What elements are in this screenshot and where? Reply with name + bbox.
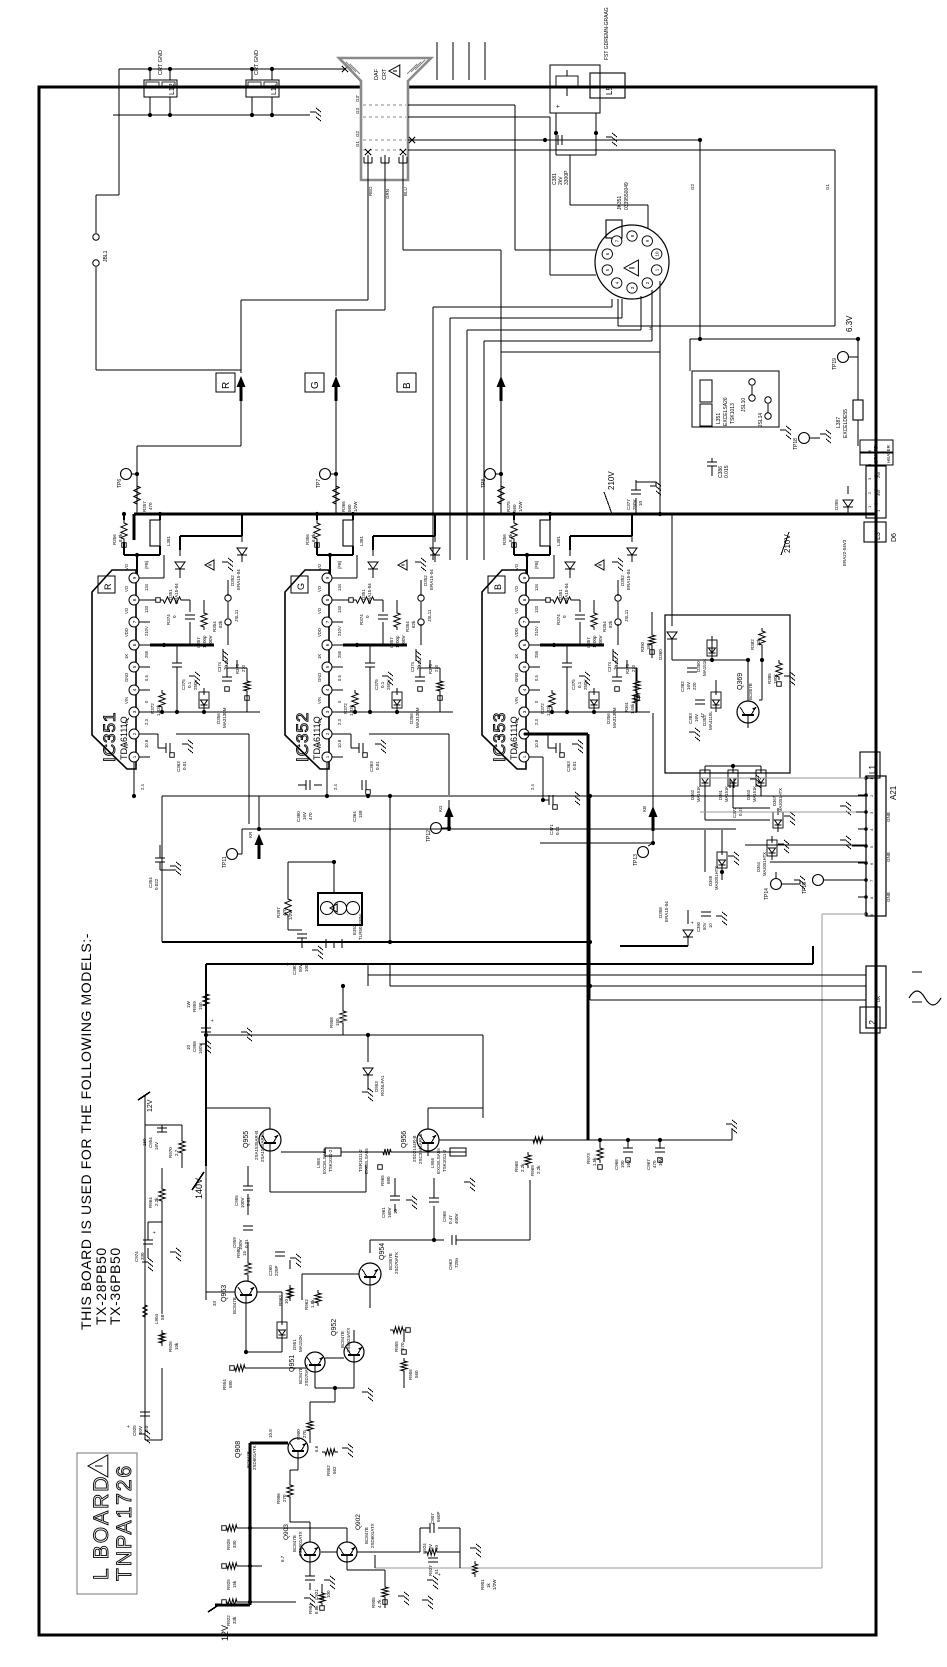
capacitor C907 [430, 1511, 441, 1533]
svg-text:134: 134 [337, 583, 342, 591]
svg-text:D352: D352 [423, 575, 428, 586]
capacitor C354 [148, 845, 165, 890]
svg-text:0.015: 0.015 [724, 465, 730, 478]
svg-text:6.8k: 6.8k [314, 1605, 319, 1614]
svg-text:133: 133 [144, 605, 149, 613]
capacitor B3 C decouple [562, 645, 588, 690]
wire mid rail C [540, 842, 653, 844]
resistor R925 [222, 1563, 240, 1590]
svg-text:1.33k: 1.33k [546, 704, 551, 716]
svg-text:Q952: Q952 [331, 1319, 338, 1336]
svg-text:ERA15-04: ERA15-04 [429, 569, 434, 590]
svg-text:C377: C377 [626, 499, 631, 510]
wire R3 jsl [204, 580, 228, 645]
box FST screen filter [550, 65, 600, 113]
svg-text:160V: 160V [198, 1043, 203, 1054]
svg-text:16V: 16V [154, 1142, 159, 1150]
inductor L387 [836, 400, 863, 438]
wire A21 pin5 feed [745, 844, 866, 846]
svg-text:133: 133 [337, 605, 342, 613]
resistor R970 [168, 1138, 185, 1158]
resistor R3 270 [235, 663, 250, 700]
svg-text:JSL14: JSL14 [758, 413, 764, 427]
svg-text:C958: C958 [192, 1041, 197, 1052]
svg-text:R928: R928 [226, 1539, 231, 1550]
svg-text:10: 10 [434, 1544, 439, 1550]
svg-text:2.2k: 2.2k [520, 1163, 525, 1172]
svg-text:MA151K: MA151K [696, 786, 701, 802]
svg-text:0.5: 0.5 [144, 675, 149, 681]
wire gray bottom [375, 1567, 822, 1569]
resistor R964 [148, 1186, 165, 1208]
connector HEATER 2 [860, 444, 893, 465]
svg-text:2SC3944ARLB: 2SC3944ARLB [418, 1133, 423, 1164]
svg-text:1K: 1K [514, 654, 519, 659]
svg-text:GNB: GNB [886, 892, 891, 902]
svg-text:4: 4 [132, 688, 137, 691]
capacitor C924 [422, 1543, 443, 1576]
wire mid riser 390 [389, 796, 391, 942]
svg-text:C967: C967 [646, 1159, 651, 1170]
transistor-diode D354 [392, 688, 420, 728]
wire socket bundle 4 [484, 290, 652, 560]
svg-text:DK: DK [876, 996, 881, 1002]
svg-text:560: 560 [414, 1370, 419, 1378]
svg-text:1W: 1W [186, 1000, 191, 1008]
svg-text:220P: 220P [274, 1265, 279, 1276]
svg-text:D350: D350 [696, 661, 701, 672]
svg-text:470: 470 [308, 812, 313, 820]
svg-text:D352: D352 [230, 575, 235, 586]
junction Q953 net [244, 1238, 436, 1354]
arrow KG [445, 806, 454, 817]
label box G [305, 373, 324, 392]
svg-text:100: 100 [326, 1590, 331, 1598]
svg-text:6.7: 6.7 [280, 1555, 285, 1562]
svg-text:16V: 16V [626, 1160, 631, 1168]
capacitor C383 [688, 700, 705, 724]
svg-text:10: 10 [638, 500, 643, 506]
svg-text:MA4110L: MA4110L [708, 711, 713, 730]
svg-text:2.3: 2.3 [337, 719, 342, 725]
svg-text:D369: D369 [708, 875, 713, 886]
wire gray net pin1 [700, 777, 866, 779]
capacitor C958 [186, 1009, 216, 1054]
ground C925 [139, 1430, 150, 1443]
svg-text:G1: G1 [825, 183, 830, 190]
svg-text:BC847B: BC847B [340, 1331, 345, 1348]
svg-text:MA151K: MA151K [752, 786, 757, 802]
wire G drop [369, 734, 449, 795]
ground C958 [200, 1040, 211, 1053]
junction B3 out [552, 643, 556, 647]
wire diode rows [705, 766, 770, 880]
resistor G356 [305, 520, 320, 547]
svg-text:G1: G1 [355, 140, 360, 147]
ground bias rail [241, 1028, 252, 1041]
svg-text:50V: 50V [702, 922, 707, 930]
transistor-diode D354 [199, 688, 227, 728]
resistor B356 [502, 520, 517, 547]
arrow 210V right [781, 532, 789, 555]
ground C907 [470, 1544, 481, 1557]
svg-text:D363: D363 [746, 789, 751, 800]
wire EHT leads [437, 42, 485, 80]
capacitor C954 [142, 1128, 167, 1150]
wire C354 gnd [160, 869, 176, 871]
wire R3 dropper [124, 514, 160, 578]
box spark gap E352 [318, 893, 362, 925]
capacitor C360 [296, 780, 322, 822]
capacitor C390 [690, 912, 713, 932]
svg-text:TP15: TP15 [802, 882, 808, 894]
svg-text:2.4: 2.4 [530, 784, 535, 790]
ground TP18 [820, 430, 831, 443]
svg-text:1/2W: 1/2W [353, 501, 358, 512]
wire socket left pins [408, 105, 596, 275]
wire B thick drop [524, 734, 588, 1140]
ground amp right [726, 1120, 737, 1133]
svg-text:L3: L3 [875, 532, 882, 540]
wire 210V bus [134, 512, 876, 515]
wire A21 pin6 feed [770, 861, 866, 863]
resistor B3 R feedback [546, 597, 574, 625]
ground C354 [170, 862, 181, 875]
ground R3 C12 [182, 740, 193, 753]
svg-text:L12: L12 [169, 83, 176, 95]
svg-text:G2: G2 [690, 183, 695, 190]
wire R900 [310, 1402, 335, 1443]
wire G2 line [408, 140, 700, 205]
svg-text:D953: D953 [374, 1081, 379, 1092]
wire G1 line [408, 149, 835, 151]
svg-text:EXCELSA26: EXCELSA26 [723, 397, 729, 426]
svg-text:+: + [152, 1231, 158, 1234]
svg-text:1.65k: 1.65k [630, 703, 635, 714]
test point TP12 [426, 823, 449, 843]
svg-text:160V: 160V [387, 1207, 392, 1218]
svg-text:L351: L351 [716, 413, 722, 424]
svg-text:C968: C968 [442, 1211, 447, 1222]
svg-text:8.2k: 8.2k [311, 533, 316, 542]
resistor R980 [236, 1247, 251, 1278]
box beam limiter [665, 615, 790, 773]
resistor R922 [222, 1599, 240, 1626]
transistor Q952 [344, 1342, 364, 1367]
transistor-diode D365 [773, 808, 795, 832]
svg-text:2.2k: 2.2k [154, 1197, 159, 1206]
resistor R382 [750, 628, 765, 650]
svg-text:C360: C360 [296, 811, 301, 822]
svg-text:82k: 82k [608, 620, 613, 628]
svg-text:50V: 50V [138, 1426, 143, 1434]
svg-text:3: 3 [522, 710, 527, 713]
svg-text:Q953: Q953 [221, 1285, 228, 1302]
wire heater 6.3V [690, 339, 858, 446]
capacitor B3 C12 [548, 743, 577, 772]
svg-text:C959: C959 [232, 1237, 237, 1248]
wire lower top boundary [206, 946, 813, 1166]
svg-text:R361: R361 [624, 701, 629, 712]
junction spark [332, 860, 336, 864]
svg-text:VO: VO [514, 563, 519, 570]
capacitor C380a [286, 934, 309, 975]
svg-text:R374: R374 [556, 614, 561, 625]
svg-text:15: 15 [242, 1250, 247, 1256]
svg-text:R356: R356 [502, 534, 507, 545]
svg-text:L904: L904 [154, 1313, 159, 1324]
capacitor G3 C comp [378, 615, 406, 648]
svg-text:3300P: 3300P [564, 170, 570, 185]
svg-text:(FB): (FB) [144, 560, 149, 569]
svg-text:FST GDREMN-GRAAG: FST GDREMN-GRAAG [604, 7, 610, 60]
svg-text:C924: C924 [422, 1543, 427, 1554]
svg-text:0.01: 0.01 [555, 826, 560, 835]
svg-text:G: G [310, 381, 321, 389]
test point TP19 [838, 352, 859, 363]
svg-text:TSK1013: TSK1013 [730, 403, 736, 424]
wire G3 pin2 [343, 734, 351, 748]
warning triangle G3 [398, 560, 407, 570]
op-amp IC351 outline [92, 570, 136, 769]
svg-text:0.01: 0.01 [572, 761, 577, 770]
svg-text:1/2W: 1/2W [288, 909, 293, 920]
svg-text:CRT GND: CRT GND [158, 50, 164, 75]
svg-text:VIN: VIN [124, 697, 129, 704]
svg-text:C375: C375 [181, 679, 186, 690]
resistor R901 [472, 1561, 497, 1590]
svg-text:KB: KB [642, 806, 647, 812]
wire G3 dropper [317, 514, 353, 578]
resistor R956 [401, 1350, 419, 1380]
junction G2 long [698, 337, 702, 341]
wire FST loop [556, 113, 648, 228]
transistor-diode D361 [718, 766, 738, 802]
svg-text:CRT GND: CRT GND [254, 50, 260, 75]
svg-text:R925: R925 [226, 1579, 231, 1590]
svg-text:D367: D367 [772, 795, 777, 806]
op-amp IC353 outline [482, 570, 526, 769]
svg-text:L381: L381 [556, 535, 561, 546]
wire C963 out [456, 1180, 530, 1240]
capacitor R3 C74 [217, 661, 232, 691]
wire Q369 feed [671, 514, 673, 615]
svg-text:R956: R956 [408, 1369, 413, 1380]
svg-text:330: 330 [232, 1540, 237, 1548]
transistor-diode D369 [708, 848, 739, 890]
svg-text:1: 1 [522, 755, 527, 758]
wire Q908 net [290, 1458, 298, 1522]
arrow 12V upper [138, 1092, 150, 1100]
svg-text:C354: C354 [148, 877, 153, 888]
junction R958 [341, 984, 345, 988]
svg-text:TP13: TP13 [633, 854, 639, 866]
svg-text:BLU: BLU [403, 187, 408, 196]
box L351 filter [692, 371, 779, 427]
wire BLU cathode run [403, 176, 501, 378]
junction 6.3V [856, 337, 860, 341]
capacitor C966 [614, 1148, 633, 1170]
junction mid riser [588, 940, 592, 988]
wire B3 right net [617, 660, 637, 712]
svg-text:5: 5 [522, 665, 527, 668]
svg-text:1.33k: 1.33k [156, 704, 161, 716]
capacitor C371 [543, 795, 560, 835]
svg-text:D356: D356 [216, 713, 221, 724]
transistor Q954 [359, 1263, 381, 1290]
svg-text:VO: VO [124, 585, 129, 592]
svg-text:B: B [493, 584, 503, 590]
svg-text:R927: R927 [428, 1565, 433, 1576]
svg-text:10k: 10k [174, 1342, 179, 1350]
svg-text:VIP: VIP [124, 742, 129, 749]
arrow 12V lower [208, 1604, 220, 1612]
svg-text:G3': G3' [355, 95, 360, 102]
resistor G3 bias [343, 690, 358, 716]
wire mid rail A [162, 795, 868, 797]
svg-text:VO: VO [317, 563, 322, 570]
svg-text:GNB: GNB [886, 852, 891, 862]
svg-text:255: 255 [337, 650, 342, 658]
svg-text:2SB624ATX: 2SB624ATX [346, 1328, 351, 1352]
svg-text:+: + [690, 921, 696, 924]
capacitor C921 [305, 1576, 331, 1600]
diode D360 [667, 632, 677, 639]
svg-text:ERA15-04: ERA15-04 [174, 583, 179, 604]
svg-text:C966: C966 [614, 1159, 619, 1170]
svg-text:10: 10 [186, 1044, 191, 1050]
capacitor C382 [680, 668, 697, 692]
inductor R381 [150, 520, 171, 546]
wire R3 pin3 rail [150, 690, 260, 712]
wire R drop [176, 734, 249, 824]
svg-text:6.3V: 6.3V [845, 315, 854, 332]
wire G3 diode tie [373, 514, 435, 550]
op-amp IC352 pins [317, 560, 343, 762]
diode D355 [843, 500, 853, 507]
svg-text:1/2W: 1/2W [492, 1579, 497, 1590]
wire R958 [342, 986, 344, 1035]
svg-text:1.5k: 1.5k [592, 1157, 597, 1166]
resistor R973 [586, 1145, 603, 1169]
svg-text:270: 270 [282, 1494, 287, 1502]
svg-text:ERA15-04: ERA15-04 [626, 569, 631, 590]
svg-text:R980: R980 [236, 1247, 241, 1258]
svg-text:D355: D355 [834, 499, 839, 510]
svg-text:3: 3 [325, 710, 330, 713]
wire gray riser [822, 914, 866, 1568]
transistor Q953 [235, 1281, 257, 1308]
ground Q951 [362, 1388, 373, 1401]
svg-text:TP18: TP18 [793, 438, 799, 450]
svg-text:JSL10: JSL10 [741, 398, 747, 412]
svg-text:D358: D358 [658, 907, 663, 918]
transistor-diode D951 [277, 1318, 303, 1352]
wire IC353 pin1 stub [529, 757, 543, 800]
test point TP14 [764, 872, 782, 900]
junction R3 out [162, 643, 166, 647]
svg-text:TP11: TP11 [222, 856, 228, 868]
capacitor B3 C comp [575, 615, 603, 648]
svg-text:+: + [437, 1573, 443, 1576]
junction mid rails [257, 794, 655, 845]
svg-text:R954: R954 [222, 1379, 227, 1390]
svg-text:R382: R382 [750, 639, 755, 650]
svg-text:JSL11: JSL11 [234, 609, 239, 622]
wire mid riser 590 [589, 796, 591, 1000]
svg-text:Q956: Q956 [401, 1131, 408, 1148]
svg-text:16V: 16V [302, 812, 307, 820]
CRT grid dashed pins [355, 95, 406, 150]
resistor G3 damp [394, 610, 416, 632]
svg-text:C925: C925 [132, 1425, 137, 1436]
svg-text:R901: R901 [480, 1579, 485, 1590]
svg-text:R958: R958 [329, 1017, 334, 1028]
capacitor R3 C comp [185, 615, 213, 648]
junction diode rows [720, 764, 735, 874]
svg-text:8: 8 [522, 598, 527, 601]
wire C961 [394, 1178, 396, 1212]
wire R970 [162, 1125, 182, 1168]
svg-text:15k: 15k [232, 1580, 237, 1588]
svg-text:560: 560 [347, 504, 352, 512]
transistor Q903 [300, 1542, 320, 1567]
svg-text:MA3051HTX: MA3051HTX [762, 852, 767, 876]
svg-text:0339550049: 0339550049 [624, 182, 630, 210]
warning triangle socket [624, 260, 638, 276]
svg-text:2SD601ATX: 2SD601ATX [370, 1523, 375, 1548]
svg-text:2.4: 2.4 [140, 784, 145, 790]
svg-text:MA151K: MA151K [702, 659, 707, 676]
wire KR drop [258, 796, 260, 829]
svg-text:255: 255 [534, 650, 539, 658]
label box R [216, 373, 235, 392]
svg-text:2SD601ATK: 2SD601ATK [252, 1445, 257, 1470]
test point TP8 [481, 469, 503, 489]
ground C961 [406, 1196, 417, 1209]
resistor R958 [329, 1008, 346, 1028]
svg-text:2SD70ATX: 2SD70ATX [304, 1364, 309, 1386]
junction Q951 [333, 1386, 337, 1390]
jumper JSL B3 [615, 595, 629, 625]
svg-text:C357: C357 [586, 637, 591, 648]
wire bottom stub [374, 1555, 376, 1568]
wire 12V thick rail [215, 1443, 288, 1605]
svg-text:ERA15-04: ERA15-04 [236, 569, 241, 590]
ground B3 clamp [612, 558, 623, 571]
warning triangle R3 [205, 560, 214, 570]
svg-text:C954: C954 [148, 1137, 153, 1148]
svg-text:R973: R973 [586, 1153, 591, 1164]
jumper JSL10 [741, 379, 755, 412]
svg-text:VLL: VLL [514, 718, 519, 726]
wire RED cathode run [241, 176, 368, 373]
transistor Q902 [337, 1542, 357, 1567]
resistor R900 [296, 1418, 313, 1440]
wire KG drop [448, 800, 450, 828]
wire Q953 net [206, 1166, 444, 1352]
svg-text:VDD: VDD [317, 628, 322, 637]
svg-text:BC847B: BC847B [232, 1297, 237, 1314]
svg-text:R397: R397 [276, 907, 281, 918]
wire G3 right net [420, 660, 440, 712]
wire B3 output [540, 644, 604, 647]
svg-text:GND: GND [514, 673, 519, 682]
svg-text:JK351: JK351 [617, 196, 623, 210]
svg-text:C374: C374 [607, 661, 612, 672]
svg-text:VO: VO [317, 585, 322, 592]
svg-text:L956: L956 [430, 1157, 435, 1168]
